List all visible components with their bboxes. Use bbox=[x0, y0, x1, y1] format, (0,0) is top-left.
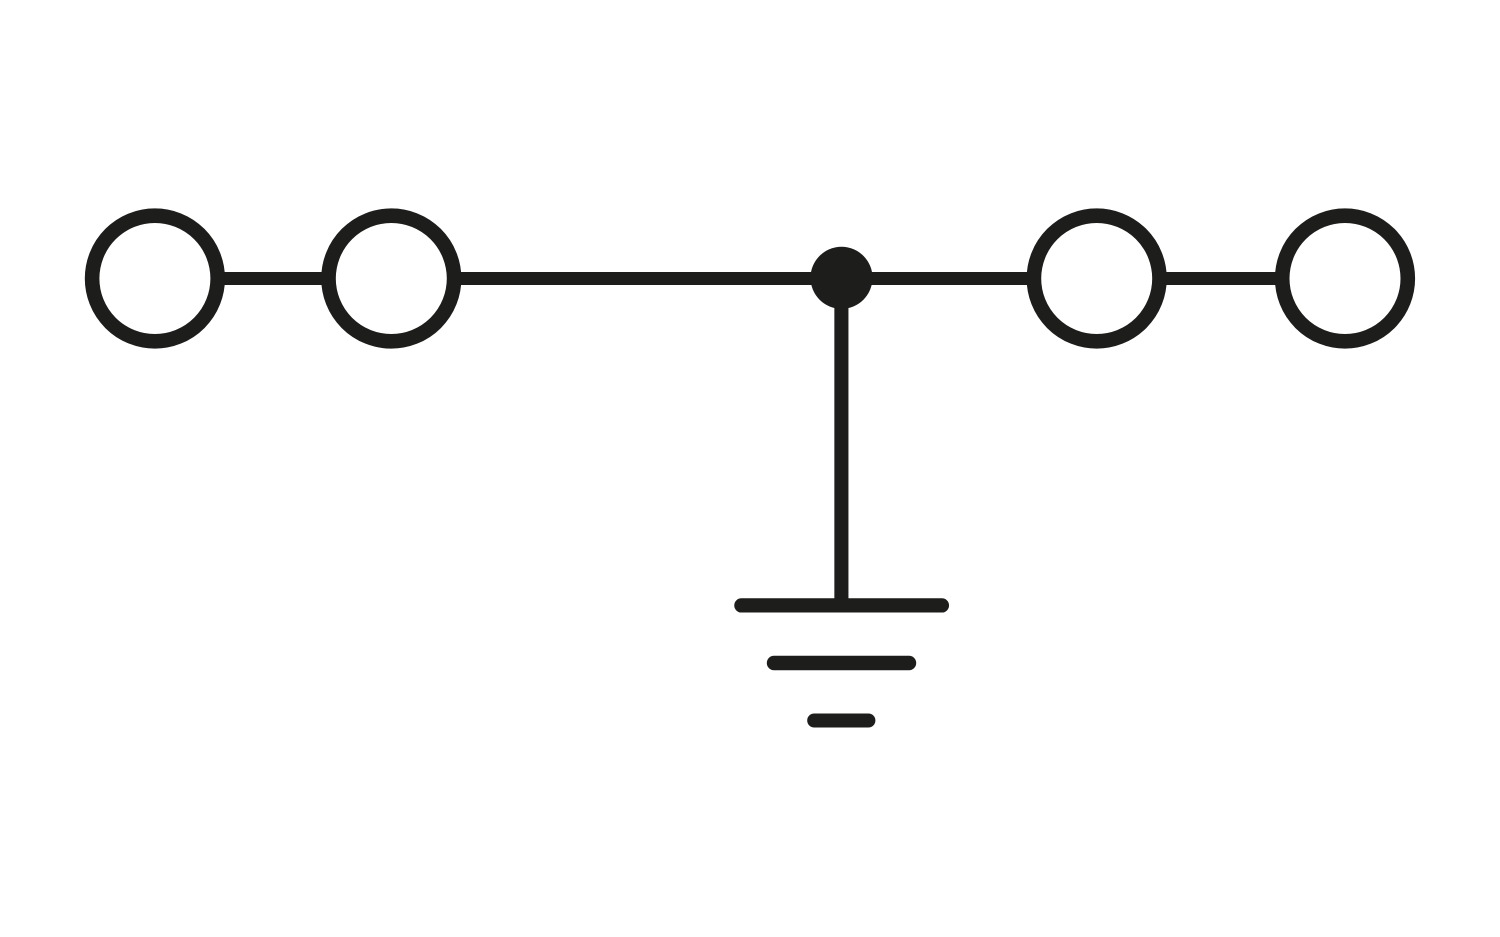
terminal circle 4 bbox=[1282, 216, 1408, 342]
terminal circle 2 bbox=[329, 216, 455, 342]
wire W1 (terminal 1 to terminal 2) bbox=[222, 272, 325, 285]
ground bar 1 (top, longest) bbox=[741, 598, 942, 612]
terminal circle 3 bbox=[1034, 216, 1160, 342]
wire W4 (vertical, node A to ground) bbox=[834, 279, 848, 606]
wire W3 (terminal 3 to terminal 4) bbox=[1163, 272, 1279, 285]
wire W2 (terminal 2 to node A to terminal 3) bbox=[458, 272, 1030, 285]
ground bar 3 (bottom, shortest) bbox=[814, 714, 868, 728]
ground bar 2 (middle) bbox=[774, 656, 909, 670]
terminal circle 1 bbox=[92, 216, 218, 342]
node A (junction dot) bbox=[811, 247, 873, 309]
